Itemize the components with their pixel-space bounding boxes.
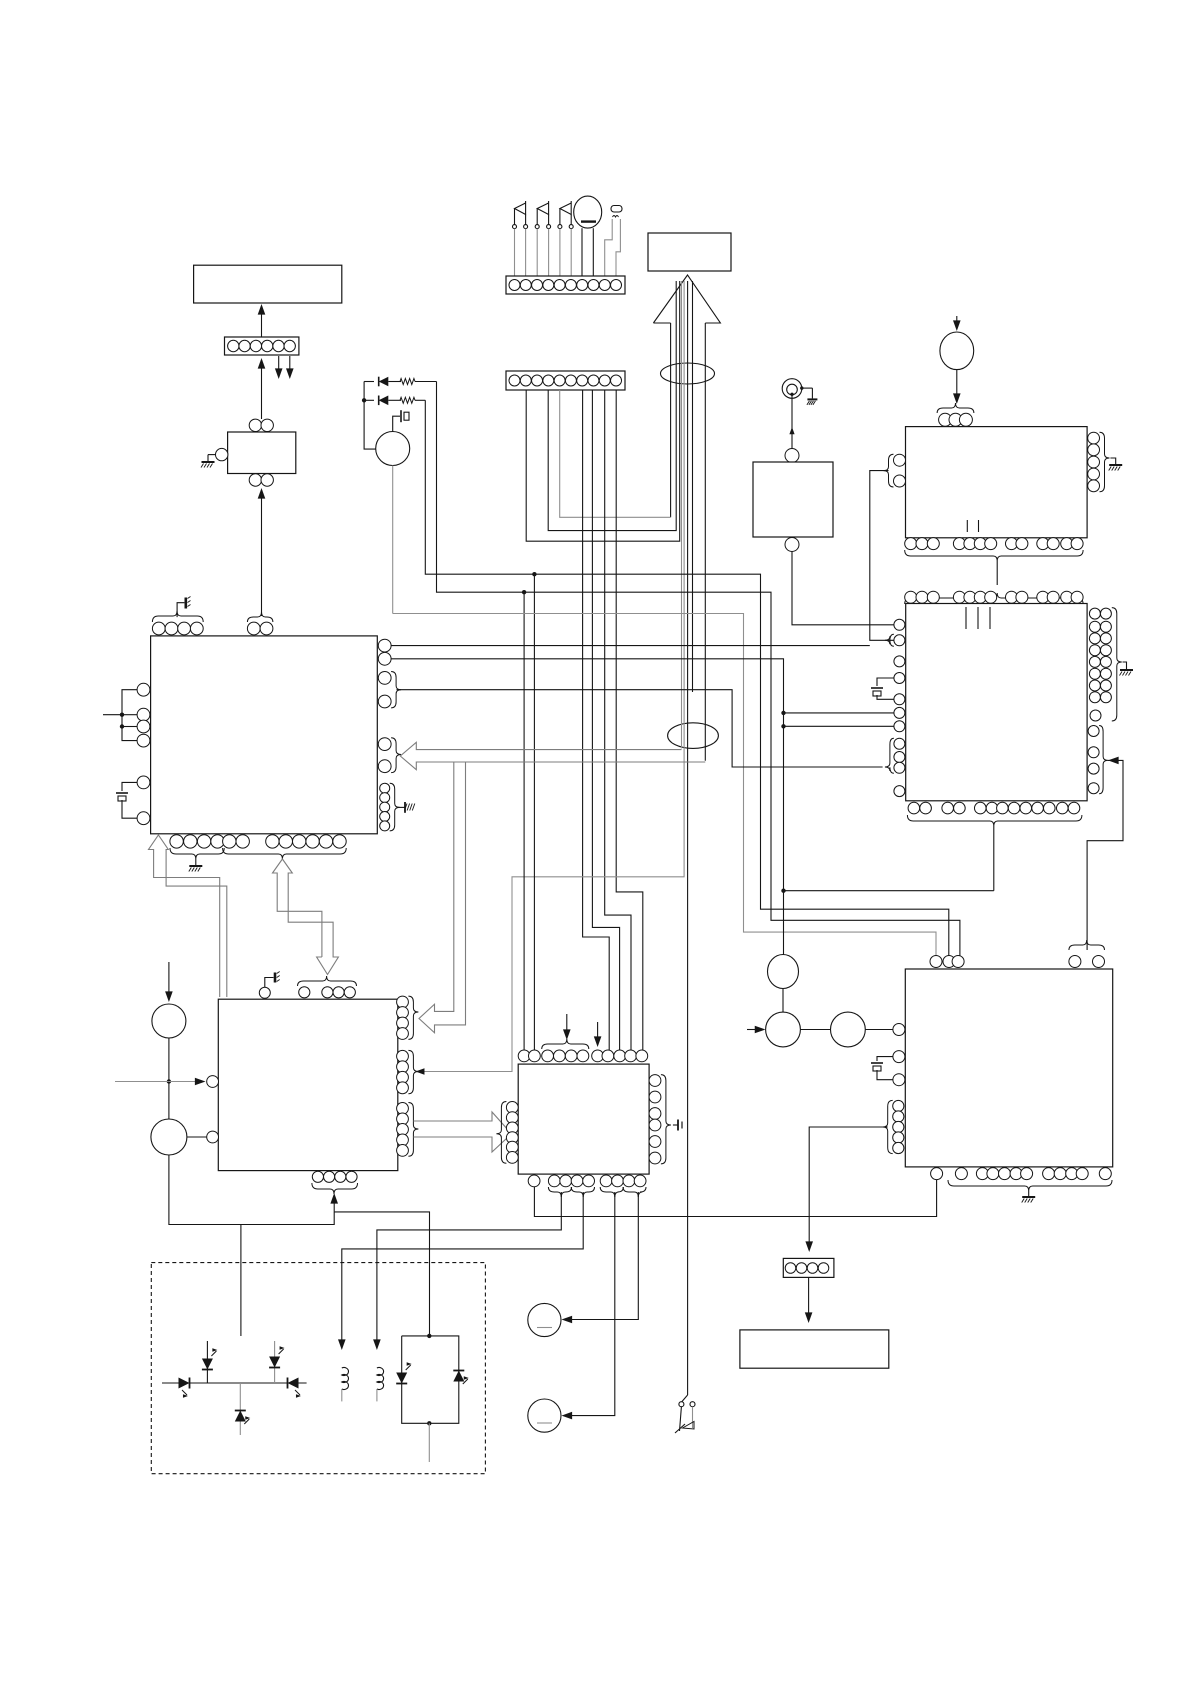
power transformer T1 <box>940 316 974 404</box>
wire A3 to IC3b pin1 <box>792 552 894 625</box>
IC4 right crystal X2 <box>673 1120 682 1131</box>
IC2 right pins 3-4 <box>378 672 401 708</box>
IC3b system control block <box>906 604 1087 801</box>
LED array wire <box>162 1382 307 1384</box>
IC5 top pin 1 + crystal <box>259 972 279 999</box>
IC3a left pins <box>884 454 906 487</box>
photo diode PD2 <box>288 1378 302 1398</box>
run B (motor ctrl 2) <box>437 382 960 956</box>
cassette switch symbol <box>605 206 622 280</box>
cassette mechanism bundle arrow <box>653 275 720 761</box>
IC6 left capacitor C4 <box>871 1057 893 1080</box>
IC3a right ground <box>1109 458 1123 471</box>
mech cable arrow into IC2 <box>400 742 705 769</box>
IC3b left pin2 bracket <box>885 634 894 646</box>
optical pickup block (dashed) <box>151 1263 485 1474</box>
IC3b left capacitor C3 <box>871 678 894 699</box>
IC5 right pins group1 <box>397 996 419 1039</box>
wire / arrow into CN1 <box>258 358 266 419</box>
coil L1 <box>342 1367 349 1401</box>
IC4 right pins <box>649 1075 671 1164</box>
coil L2 <box>377 1367 384 1401</box>
IC2 left pin loop <box>103 690 137 741</box>
wire / arrow into A1 <box>258 304 266 337</box>
wire IC3b to IC6 <box>1087 757 1123 950</box>
CN5 connector (4-pin) <box>783 1258 834 1277</box>
mechanism block A2 <box>648 233 731 271</box>
wire F2 to IC5 pin2 <box>187 1136 207 1138</box>
IC3b text remnant <box>966 607 990 629</box>
IC2 left pin 6 <box>137 812 150 825</box>
spur to IC3 pin7 <box>784 725 894 727</box>
input arrow IC4 a <box>563 1014 571 1040</box>
wire IC4 to coil L2 <box>373 1192 561 1350</box>
run D2 from IC2 pin <box>391 659 784 955</box>
IC3b lower right pins <box>1088 726 1108 794</box>
connector CN1 (6-pin) <box>225 337 299 355</box>
junction D2b <box>781 724 785 728</box>
spur to IC3 pin6 <box>784 712 894 714</box>
IC2 bottom pins group2 <box>223 835 347 859</box>
wire CN3-3 <box>548 281 676 531</box>
IC1 left pin + ground <box>201 448 228 467</box>
main connector CN3 (10-pin) <box>506 371 625 390</box>
IC4 bottom pins <box>528 1175 646 1197</box>
wire J1 to A3 <box>789 394 794 448</box>
arrow into IC5 bottom <box>330 1193 338 1212</box>
IC5 top pins 2-5 <box>298 976 357 998</box>
wire IC6 to CN5 <box>805 1127 887 1252</box>
motor capacitor C1 <box>393 410 409 431</box>
IC5 right pins group3 <box>397 1103 419 1157</box>
mech cable arrow into IC5 right <box>419 762 466 1033</box>
laser diode LD1 <box>396 1362 412 1383</box>
IC2 bottom pins group1 <box>170 835 224 859</box>
motor M1 <box>376 432 410 614</box>
IC4 top pins <box>518 1039 648 1062</box>
laser diode loop <box>402 1334 459 1462</box>
lamp P3 <box>831 1012 866 1047</box>
indicator lamp P1 <box>768 955 799 989</box>
tape heads (erase/record/play) <box>515 201 526 215</box>
wire / arrow IC1 to U1 <box>258 488 266 616</box>
IC6 left pins <box>893 1024 905 1086</box>
IC2 left pin 1 <box>137 683 150 696</box>
IC2 right crystal X1 <box>397 802 415 813</box>
wire P3 to IC6 <box>865 1029 893 1031</box>
bus arrow IC5 to IC4 <box>413 1112 511 1152</box>
arrow into P2 <box>747 1026 765 1034</box>
wire to optics <box>240 1225 242 1337</box>
junction D2c <box>781 889 785 893</box>
IC6 bottom ground <box>1022 1191 1035 1203</box>
wire CN3-6 <box>583 390 610 1050</box>
cable ellipse 1 <box>661 363 715 384</box>
amplifier block A1 <box>194 265 342 303</box>
wire IC4 to speaker SP1 <box>562 1192 639 1323</box>
junction A <box>532 572 536 576</box>
bundle wire a <box>681 281 683 748</box>
bundle wire c <box>692 281 694 692</box>
wire CN3-9 <box>616 390 643 1050</box>
IC6 display driver <box>905 969 1112 1167</box>
lamp P2 <box>766 1012 801 1047</box>
wire F1-F2 <box>168 1038 170 1119</box>
IC3a bottom pins <box>905 538 1083 561</box>
wire CN3-4 <box>560 390 671 517</box>
head connector CN2 (10-pin) <box>506 276 625 294</box>
run C (motor line) <box>393 614 936 956</box>
IC2 right pins 5-6 <box>378 738 401 773</box>
bus arrow IC2 <-> IC5 (double elbow) <box>273 859 339 975</box>
wire CN3-1 <box>526 281 680 541</box>
run D1 from IC2 pin <box>391 645 870 647</box>
wire F2 to IC5 bottom <box>169 1155 334 1225</box>
IC2 bottom ground <box>189 859 203 872</box>
LED D5 <box>235 1383 251 1435</box>
junction B <box>522 590 526 594</box>
motor suppression diode D2 + R2 <box>362 396 425 406</box>
drop A to IC4 <box>533 574 535 1050</box>
speaker SP1 <box>528 1303 561 1336</box>
IC5 servo/control <box>218 999 397 1170</box>
IC3b right ground <box>1120 662 1134 676</box>
IC6 left pins group <box>883 1100 904 1153</box>
wire IC3a to IC3b <box>996 561 998 585</box>
IC3b bottom pins <box>907 802 1082 826</box>
run A (motor ctrl 1) <box>425 400 949 955</box>
IC4 left pins <box>496 1102 518 1164</box>
IC2 main microprocessor <box>151 636 378 834</box>
IC5 bottom pins <box>312 1171 358 1194</box>
IC4 audio processor <box>518 1064 649 1174</box>
IC5 right pins group2 <box>397 1050 419 1093</box>
wire IC6 to IC4 <box>534 1180 936 1217</box>
IC2 left pins 2-4 <box>137 708 150 747</box>
bus arrow IC5 to IC2 (elbow) <box>149 835 227 997</box>
wire IC4 to speaker SP2 <box>562 1192 615 1419</box>
wire P2-P3 <box>800 1029 830 1031</box>
IC2 left pin 5 <box>137 776 150 789</box>
leaf switch S1 <box>675 1402 695 1433</box>
IC3b left pins <box>894 619 905 732</box>
wire CN3-7 <box>592 390 619 1050</box>
bundle wire to leaf switch <box>682 281 688 1402</box>
IC3a right pins <box>1088 432 1110 492</box>
A4 power block <box>740 1330 889 1368</box>
IC2 top ground <box>177 597 190 618</box>
IC2 right pins 1-2 <box>378 639 391 665</box>
IC3a text remnant <box>967 520 978 532</box>
IC2 top pins group1 <box>152 611 203 635</box>
wire to laser loop <box>334 1212 429 1336</box>
wire P1-P2 <box>782 989 784 1013</box>
IC5 left pin 2 <box>207 1131 219 1143</box>
LED D3 <box>202 1341 218 1383</box>
capstan motor symbol <box>574 196 602 279</box>
IC3b right pin matrix <box>1089 608 1121 721</box>
wire CN3-8 <box>605 390 631 1050</box>
speaker SP2 <box>528 1399 561 1432</box>
fuse F1 <box>152 1004 186 1038</box>
wire CN5 to A4 <box>805 1277 813 1323</box>
wire into IC5 left pin1 <box>115 1078 206 1086</box>
fuse F2 <box>151 1119 187 1155</box>
CN4 3-pin <box>937 403 974 426</box>
IC3a power supply block <box>906 427 1088 538</box>
input arrow IC4 b <box>594 1022 602 1047</box>
run to IC3b bottom brace <box>784 826 994 891</box>
junction F <box>167 1079 171 1083</box>
LED D4 <box>269 1341 285 1383</box>
motor suppression diode D1 + R1 <box>364 377 436 387</box>
cable ellipse 2 <box>668 723 719 749</box>
run E from IC2 brace <box>397 690 883 767</box>
IC6 bottom pins <box>931 1168 1112 1191</box>
IC2 right pins 7-11 <box>380 783 400 831</box>
IC2 left capacitor C2 <box>116 782 137 818</box>
wire IC4 to coil L1 <box>338 1192 583 1350</box>
junction D2a <box>781 711 785 715</box>
drop B to IC4 <box>523 592 525 1050</box>
photo diode PD1 <box>179 1378 190 1398</box>
headphone jack J1 <box>782 379 817 405</box>
A3 headphone amp <box>753 449 833 552</box>
motor feed wire <box>364 382 376 450</box>
IC1 control block <box>228 419 296 486</box>
power input arrow <box>165 962 173 1002</box>
monitor diode MD1 <box>453 1371 469 1385</box>
bundle wire b <box>416 281 685 1075</box>
IC5 left pin 1 <box>207 1076 219 1088</box>
wire IC3a to IC3b bracket <box>870 471 894 641</box>
IC2 top pins pair <box>247 612 273 635</box>
IC3b left pins group <box>885 738 905 796</box>
IC6 top pins <box>930 940 1105 968</box>
IC3b top pins <box>905 591 1083 604</box>
signal out arrows below CN1 <box>275 356 294 379</box>
